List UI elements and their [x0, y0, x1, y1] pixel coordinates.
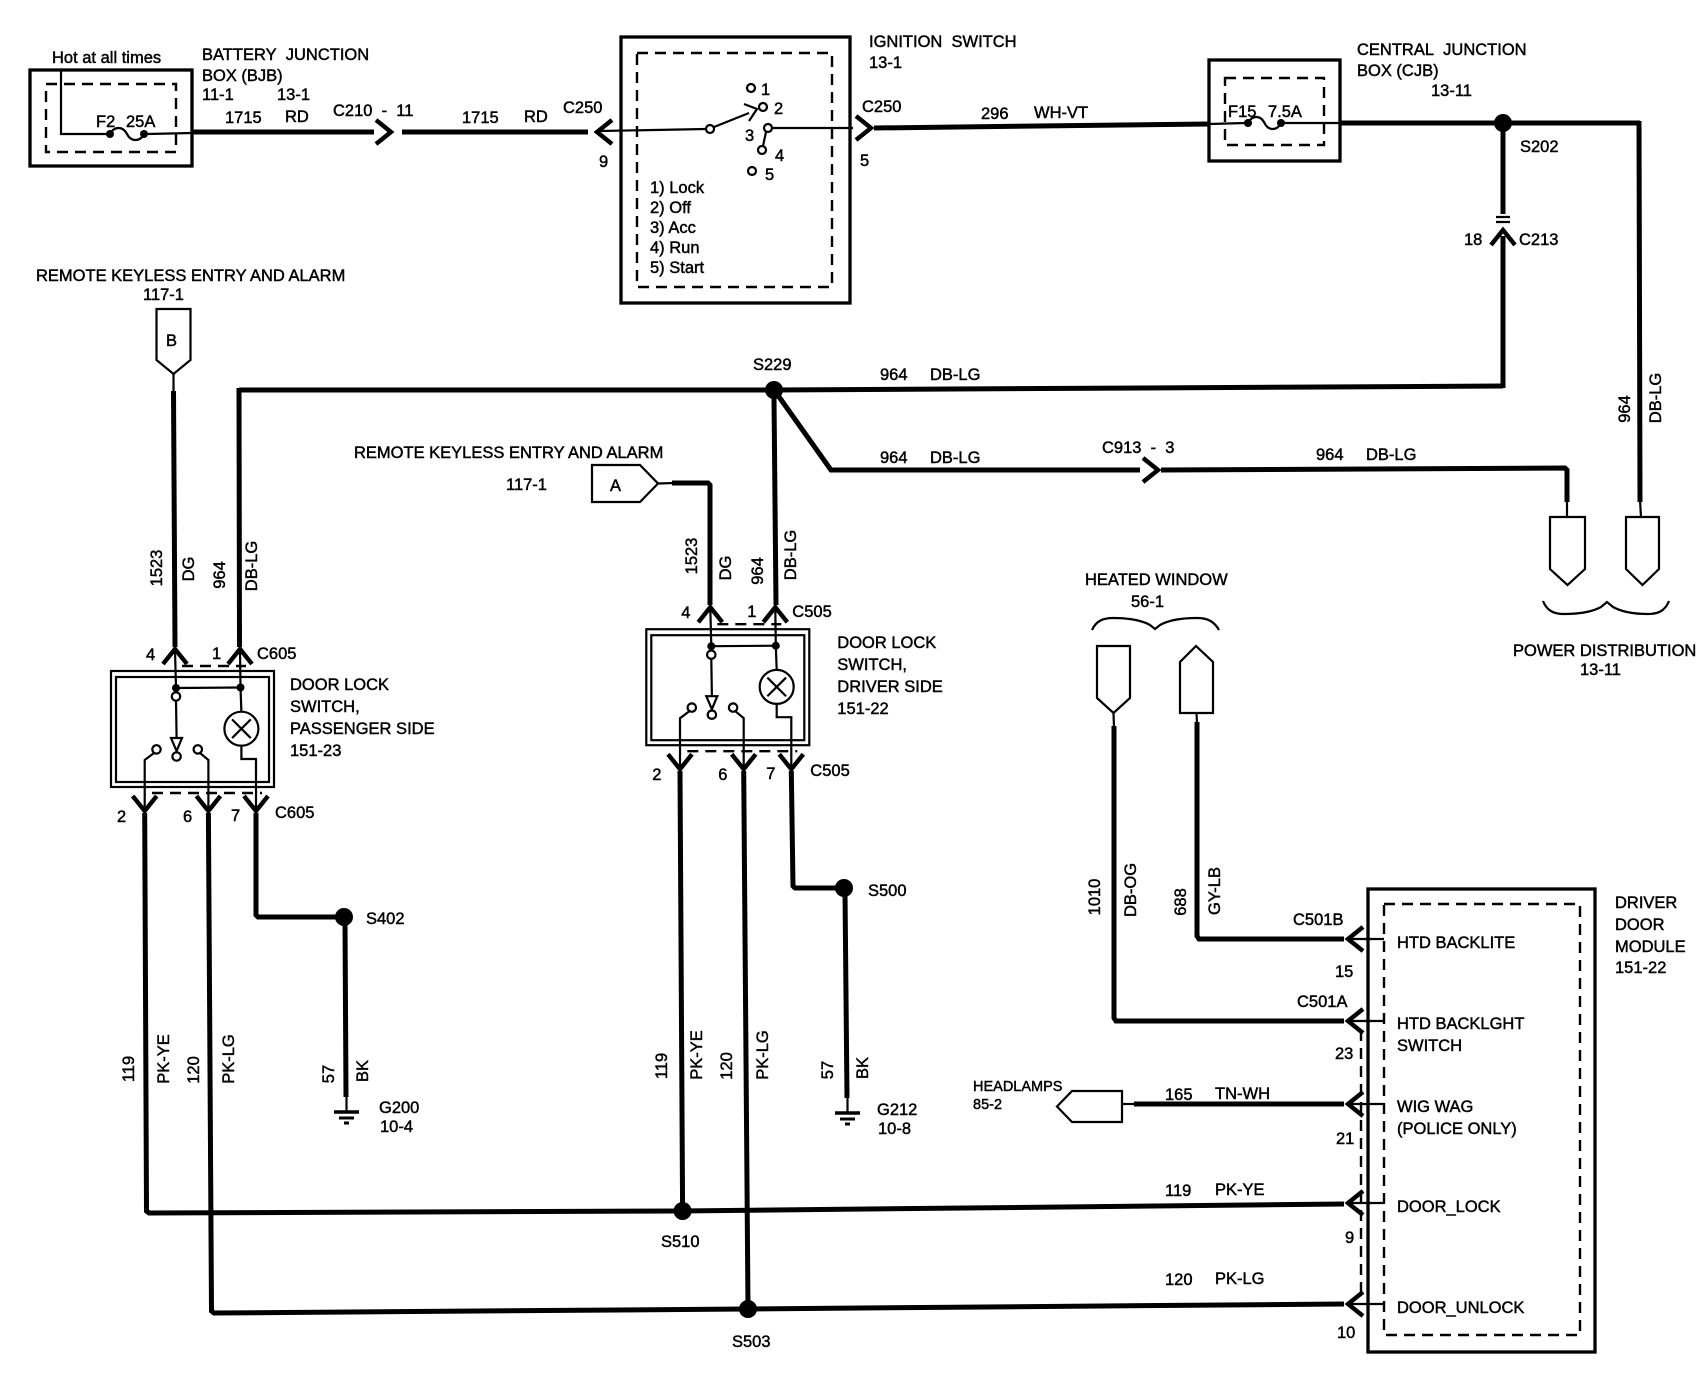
driver door module pin 9 DOOR_LOCK [1348, 1191, 1363, 1215]
svg-text:DB-LG: DB-LG [782, 530, 800, 580]
svg-text:964: 964 [211, 561, 229, 589]
svg-text:2: 2 [117, 808, 126, 826]
svg-text:964: 964 [1316, 446, 1344, 464]
svg-text:1010: 1010 [1086, 879, 1104, 916]
svg-text:6: 6 [718, 766, 727, 784]
wire S500 to ground G212 [845, 892, 847, 1098]
svg-text:DOOR_LOCK: DOOR_LOCK [1397, 1198, 1501, 1216]
svg-text:C913 - 3: C913 - 3 [1102, 439, 1174, 457]
wire contact3 to C250 pin 5 [772, 127, 853, 129]
battery junction box BJB outer box [30, 70, 192, 166]
wire 1715 RD from BJB to C210-11 [192, 130, 374, 135]
svg-text:DOOR LOCK: DOOR LOCK [837, 634, 936, 652]
ground G212 10-8 [846, 1097, 848, 1113]
wire 964 DB-LG from S229 bus corner to C605 pin 1 [237, 388, 243, 647]
heated window brace [1092, 618, 1219, 630]
connector C250 pin 5 arrow [856, 116, 871, 140]
connector C913-3 arrow [1143, 458, 1158, 482]
wire 964 DB-LG bus from corner to S202 branch [239, 386, 1503, 390]
svg-text:Hot at all times: Hot at all times [52, 49, 161, 67]
svg-text:23: 23 [1335, 1045, 1353, 1063]
svg-text:9: 9 [1345, 1229, 1354, 1247]
svg-text:HEATED WINDOW: HEATED WINDOW [1085, 571, 1228, 589]
svg-text:56-1: 56-1 [1131, 593, 1164, 611]
svg-text:13-1: 13-1 [869, 54, 902, 72]
svg-text:3) Acc: 3) Acc [650, 219, 696, 237]
switch common feed from pin 4 [710, 608, 711, 646]
svg-text:IGNITION SWITCH: IGNITION SWITCH [869, 33, 1017, 51]
ignition switch contact 4 [758, 146, 766, 154]
connector B remote keyless entry [157, 309, 191, 374]
svg-text:4: 4 [775, 147, 784, 165]
svg-text:18: 18 [1464, 231, 1482, 249]
splice S202 [1494, 114, 1512, 132]
svg-text:964: 964 [749, 557, 767, 585]
switch common feed from pin 4 [175, 650, 176, 688]
svg-text:964: 964 [880, 449, 908, 467]
svg-text:57: 57 [819, 1061, 837, 1079]
door lock switch DOOR LOCK outer box [646, 629, 809, 745]
svg-text:2: 2 [774, 100, 783, 118]
svg-text:S503: S503 [732, 1333, 771, 1351]
svg-text:2: 2 [652, 766, 661, 784]
svg-text:PK-YE: PK-YE [1215, 1181, 1265, 1199]
svg-text:(POLICE ONLY): (POLICE ONLY) [1397, 1120, 1517, 1138]
svg-text:BATTERY JUNCTION: BATTERY JUNCTION [202, 46, 369, 64]
svg-text:6: 6 [183, 808, 192, 826]
door lock switch DOOR LOCK outer box [111, 671, 274, 787]
svg-text:4: 4 [681, 604, 690, 622]
svg-text:PASSENGER SIDE: PASSENGER SIDE [290, 720, 435, 738]
svg-text:REMOTE KEYLESS ENTRY AND ALARM: REMOTE KEYLESS ENTRY AND ALARM [354, 444, 663, 462]
svg-text:DRIVER: DRIVER [1615, 894, 1677, 912]
switch lock contact [152, 745, 160, 753]
wire S503 to DOOR_UNLOCK pin 10 [746, 1304, 1344, 1309]
switch wiper [707, 651, 715, 659]
wire 964 DB-LG to power distribution left terminal [1161, 468, 1567, 502]
splice S500 [835, 879, 853, 897]
svg-text:DG: DG [180, 557, 198, 582]
wire hot feed bus inside BJB [61, 71, 108, 134]
svg-text:5: 5 [765, 166, 774, 184]
svg-text:1523: 1523 [148, 550, 166, 587]
driver door module pin 15 HTD BACKLITE [1348, 927, 1363, 951]
central junction box CJB outer box [1209, 60, 1340, 161]
wire S510 to DOOR_LOCK pin 9 [680, 1204, 1344, 1211]
svg-text:4) Run: 4) Run [650, 239, 700, 257]
splice S503 [739, 1300, 757, 1318]
svg-text:BK: BK [854, 1057, 872, 1079]
svg-text:25A: 25A [126, 113, 155, 131]
svg-text:PK-LG: PK-LG [754, 1030, 772, 1080]
svg-text:1: 1 [747, 603, 756, 621]
svg-text:85-2: 85-2 [973, 1097, 1002, 1113]
svg-text:120: 120 [1165, 1271, 1193, 1289]
svg-text:PK-LG: PK-LG [1215, 1270, 1265, 1288]
svg-text:151-22: 151-22 [837, 700, 888, 718]
svg-text:DB-LG: DB-LG [930, 449, 980, 467]
svg-text:S229: S229 [753, 356, 792, 374]
svg-text:DB-LG: DB-LG [930, 366, 980, 384]
svg-text:RD: RD [285, 108, 309, 126]
svg-text:BOX (CJB): BOX (CJB) [1357, 62, 1439, 80]
svg-text:13-11: 13-11 [1580, 661, 1621, 679]
svg-text:10: 10 [1337, 1324, 1355, 1342]
svg-text:CENTRAL JUNCTION: CENTRAL JUNCTION [1357, 41, 1527, 59]
svg-text:C605: C605 [257, 645, 296, 663]
svg-text:DB-LG: DB-LG [1366, 446, 1416, 464]
svg-text:BK: BK [354, 1060, 372, 1082]
wire 119 PK-YE passenger pin2 down to door lock bus [145, 813, 680, 1213]
connector C501A dashed boundary inside module [1360, 1030, 1362, 1300]
svg-text:117-1: 117-1 [143, 286, 184, 304]
svg-text:DOOR_UNLOCK: DOOR_UNLOCK [1397, 1299, 1524, 1317]
svg-text:C250: C250 [563, 99, 602, 117]
svg-text:9: 9 [599, 153, 608, 171]
svg-text:13-1: 13-1 [277, 86, 310, 104]
svg-text:C210 - 11: C210 - 11 [333, 102, 413, 120]
power distribution terminal left [1550, 517, 1585, 585]
splice S229 [765, 381, 783, 399]
wire 1523 DG from A to C505 pin 4 [658, 482, 674, 485]
svg-text:13-11: 13-11 [1431, 82, 1472, 100]
svg-text:1715: 1715 [462, 109, 499, 127]
switch wiper [172, 692, 180, 700]
fuse F2 25A [106, 130, 114, 138]
svg-text:119: 119 [120, 1056, 138, 1082]
battery junction box BJB dashed box [46, 84, 176, 152]
illumination lamp from pin 1 [239, 650, 242, 688]
splice S402 [335, 908, 353, 926]
svg-text:REMOTE KEYLESS ENTRY AND ALARM: REMOTE KEYLESS ENTRY AND ALARM [36, 267, 345, 285]
svg-text:G200: G200 [379, 1099, 419, 1117]
wire CJB to S202 and right corner [1340, 121, 1640, 126]
svg-text:S510: S510 [661, 1233, 700, 1251]
svg-text:7.5A: 7.5A [1268, 103, 1302, 121]
wire S202 down to C213 [1501, 128, 1506, 214]
svg-text:TN-WH: TN-WH [1215, 1085, 1270, 1103]
wire 296 WH-VT [874, 124, 1209, 128]
svg-text:PK-LG: PK-LG [220, 1034, 238, 1084]
svg-text:DB-LG: DB-LG [1647, 373, 1665, 423]
connector C605 bottom arrows pins 2 6 7 [152, 792, 262, 794]
svg-text:165: 165 [1165, 1086, 1193, 1104]
svg-text:10-8: 10-8 [878, 1120, 911, 1138]
connector C213 pin 18 arrow [1491, 230, 1515, 245]
svg-text:G212: G212 [877, 1101, 917, 1119]
power distribution brace [1543, 601, 1669, 614]
wire 1715 RD from C210-11 to C250 [402, 130, 588, 135]
svg-text:120: 120 [185, 1056, 203, 1084]
svg-text:B: B [166, 332, 177, 350]
switch lock contact [688, 703, 696, 711]
wire 120 PK-LG passenger pin6 down to door unlock bus [208, 813, 746, 1313]
driver door module pin 21 WIG WAG [1348, 1092, 1363, 1116]
svg-text:151-22: 151-22 [1615, 959, 1666, 977]
svg-text:119: 119 [1165, 1182, 1191, 1200]
connector C210-11 arrow [376, 120, 391, 144]
svg-text:120: 120 [718, 1052, 736, 1080]
wire 57 BK passenger pin7 to S402 [256, 813, 340, 917]
svg-text:SWITCH,: SWITCH, [290, 698, 360, 716]
svg-text:688: 688 [1172, 888, 1190, 916]
switch unlock contact [729, 703, 737, 711]
svg-text:11-1: 11-1 [202, 86, 234, 104]
ignition switch link contact 3 to 4 [763, 132, 766, 146]
svg-text:C505: C505 [792, 603, 831, 621]
svg-text:SWITCH: SWITCH [1397, 1037, 1462, 1055]
wire S402 to ground G200 [345, 921, 346, 1097]
ground G200 10-4 [345, 1096, 347, 1112]
svg-text:119: 119 [653, 1053, 671, 1079]
svg-text:15: 15 [1335, 963, 1353, 981]
svg-text:10-4: 10-4 [380, 1118, 413, 1136]
svg-text:DOOR LOCK: DOOR LOCK [290, 676, 389, 694]
fuse F15 7.5A [1244, 119, 1252, 127]
wire 1523 DG from B to C605 pin 4 [172, 374, 174, 393]
illumination lamp from pin 1 [774, 608, 777, 646]
svg-text:POWER DISTRIBUTION: POWER DISTRIBUTION [1513, 642, 1696, 660]
svg-text:PK-YE: PK-YE [155, 1034, 173, 1084]
svg-text:5) Start: 5) Start [650, 259, 705, 277]
svg-text:GY-LB: GY-LB [1206, 867, 1224, 915]
driver door module outer box [1368, 889, 1595, 1352]
svg-text:WIG WAG: WIG WAG [1397, 1098, 1473, 1116]
svg-text:5: 5 [860, 152, 869, 170]
svg-text:C501A: C501A [1297, 993, 1347, 1011]
svg-text:57: 57 [320, 1065, 338, 1083]
ignition switch contact 5 [748, 167, 756, 175]
heated window terminal left (to backlight switch) [1097, 646, 1130, 713]
central junction box CJB dashed box [1225, 78, 1324, 145]
driver door module pin 10 DOOR_UNLOCK [1348, 1292, 1363, 1316]
wire 165 TN-WH to WIG WAG [1122, 1103, 1136, 1105]
wire 964 DB-LG from S229 down to C505 pin 1 [774, 398, 776, 605]
wire 1010 DB-OG down to C501A [1112, 713, 1115, 728]
svg-text:DOOR: DOOR [1615, 916, 1665, 934]
svg-text:C505: C505 [810, 762, 849, 780]
svg-text:HTD BACKLGHT: HTD BACKLGHT [1397, 1015, 1524, 1033]
svg-text:117-1: 117-1 [506, 476, 547, 494]
svg-text:1: 1 [761, 81, 770, 99]
connector HEADLAMPS (to wig wag) [1057, 1091, 1122, 1122]
wire 688 GY-LB down to C501B [1195, 713, 1198, 724]
svg-text:S202: S202 [1520, 138, 1559, 156]
heated window terminal right (to backlite) [1180, 646, 1213, 713]
connector C250 pin 9 arrow [597, 120, 612, 144]
ignition switch contact 2 [759, 103, 767, 111]
connector A remote keyless entry [592, 465, 658, 502]
svg-text:RD: RD [524, 108, 548, 126]
svg-text:7: 7 [231, 807, 240, 825]
svg-text:F15: F15 [1228, 103, 1256, 121]
svg-text:MODULE: MODULE [1615, 938, 1686, 956]
svg-text:C605: C605 [275, 804, 314, 822]
splice S510 [674, 1202, 692, 1220]
ignition switch contact 1 [747, 84, 755, 92]
connector C505 bottom arrows pins 2 6 7 [687, 750, 797, 752]
svg-text:DB-OG: DB-OG [1122, 863, 1140, 917]
ignition switch contact 3 [764, 124, 772, 132]
ignition switch outer box [621, 37, 850, 303]
svg-text:1715: 1715 [225, 109, 262, 127]
ignition switch wiper arm [706, 125, 714, 133]
svg-text:DRIVER SIDE: DRIVER SIDE [837, 678, 942, 696]
svg-text:S402: S402 [366, 910, 405, 928]
svg-text:WH-VT: WH-VT [1034, 104, 1088, 122]
wire 120 PK-LG driver pin6 down to S503 [744, 771, 748, 1309]
svg-text:F2: F2 [96, 113, 115, 131]
svg-text:C250: C250 [862, 98, 901, 116]
svg-text:7: 7 [766, 765, 775, 783]
ignition switch dashed box [637, 53, 832, 287]
svg-text:1: 1 [212, 645, 221, 663]
driver door module pin 23 HTD BACKLGHT [1348, 1009, 1363, 1033]
svg-text:964: 964 [880, 366, 908, 384]
svg-text:964: 964 [1616, 395, 1634, 423]
svg-text:S500: S500 [868, 882, 907, 900]
svg-text:151-23: 151-23 [290, 742, 341, 760]
svg-text:2) Off: 2) Off [650, 199, 691, 217]
svg-text:4: 4 [146, 646, 155, 664]
svg-text:HTD BACKLITE: HTD BACKLITE [1397, 934, 1515, 952]
svg-text:21: 21 [1336, 1130, 1354, 1148]
svg-text:296: 296 [981, 105, 1009, 123]
svg-text:DB-LG: DB-LG [243, 541, 261, 591]
wire 57 BK driver pin7 to S500 [791, 771, 838, 888]
svg-text:1) Lock: 1) Lock [650, 179, 705, 197]
svg-text:3: 3 [745, 127, 754, 145]
svg-text:A: A [610, 477, 621, 495]
svg-text:DG: DG [717, 556, 735, 581]
svg-text:SWITCH,: SWITCH, [837, 656, 907, 674]
svg-text:1523: 1523 [683, 538, 701, 575]
power distribution terminal right [1626, 517, 1659, 585]
svg-text:PK-YE: PK-YE [688, 1030, 706, 1080]
wire C213 down to S229 bus [1501, 236, 1506, 388]
driver door module dashed box [1384, 904, 1580, 1335]
wire right vertical 964 DB-LG down to power distribution [1639, 121, 1640, 502]
wire 119 PK-YE driver pin2 down to S510 [680, 771, 683, 1211]
svg-text:C213: C213 [1519, 231, 1558, 249]
svg-text:BOX (BJB): BOX (BJB) [202, 67, 283, 85]
wire S229 diagonal to lower 964 bus [777, 394, 1140, 470]
switch unlock contact [194, 745, 202, 753]
svg-text:HEADLAMPS: HEADLAMPS [973, 1079, 1062, 1095]
svg-text:C501B: C501B [1293, 911, 1343, 929]
